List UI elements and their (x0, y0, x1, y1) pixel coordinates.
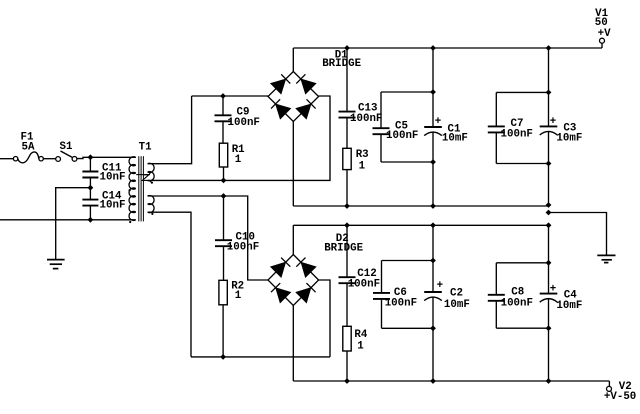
wire (43, 158, 55, 160)
wire (293, 224, 548, 226)
svg-text:+: + (437, 280, 443, 292)
capacitor C3 (540, 126, 558, 135)
capacitor C2 (424, 292, 442, 301)
svg-text:BRIDGE: BRIDGE (322, 58, 361, 70)
capacitor C8 (488, 263, 505, 328)
label V1 (595, 8, 611, 40)
capacitor C9 (215, 96, 232, 143)
label C10 (227, 231, 259, 253)
label C3 (550, 116, 583, 145)
capacitor C1 (424, 127, 442, 136)
junction (88, 154, 94, 160)
wire (148, 96, 192, 164)
capacitor C7 (488, 92, 505, 163)
svg-text:+V-50: +V-50 (604, 391, 636, 403)
wire (432, 132, 434, 206)
svg-text:100nF: 100nF (228, 117, 260, 129)
wire (292, 122, 294, 207)
label C13 (350, 103, 382, 125)
capacitor C6 (373, 261, 390, 329)
label C14 (100, 190, 126, 211)
wire (496, 163, 548, 165)
label C12 (348, 268, 380, 291)
label C5 (386, 120, 418, 142)
junction (546, 222, 552, 228)
label C1 (435, 116, 468, 145)
svg-text:10mF: 10mF (556, 300, 582, 312)
svg-text:+: + (550, 283, 556, 295)
ground (597, 255, 615, 262)
junction (546, 378, 552, 384)
wire (292, 306, 294, 382)
svg-text:10mF: 10mF (442, 133, 468, 145)
svg-text:100nF: 100nF (385, 297, 417, 309)
junction (546, 202, 552, 208)
resistor R2 (219, 280, 227, 357)
junction (546, 45, 552, 51)
svg-text:100nF: 100nF (501, 128, 533, 140)
svg-text:+: + (550, 116, 556, 128)
label C11 (100, 162, 126, 183)
svg-text:+V: +V (598, 28, 611, 40)
ground (47, 260, 65, 269)
wire (293, 205, 548, 207)
bridge rectifier D2 (268, 255, 319, 306)
phase dot (151, 182, 153, 184)
wire (381, 91, 433, 93)
svg-text:C8: C8 (511, 287, 524, 299)
wire (191, 356, 330, 358)
label R2 (231, 280, 244, 302)
wire (319, 280, 330, 357)
svg-text:5A: 5A (22, 141, 35, 153)
svg-text:1: 1 (235, 290, 242, 302)
wire (381, 161, 433, 163)
junction (430, 222, 436, 228)
junction (430, 325, 436, 331)
junction (220, 93, 226, 99)
label T1 (139, 141, 152, 153)
fuse F1 (13, 152, 43, 163)
wire (292, 225, 294, 254)
wire (292, 48, 294, 72)
svg-text:10mF: 10mF (444, 299, 470, 311)
capacitor C12 (339, 225, 356, 326)
wire (148, 212, 191, 357)
junction (344, 203, 350, 209)
capacitor C13 (339, 48, 356, 148)
switch S1 (56, 151, 77, 161)
svg-text:C2: C2 (450, 288, 463, 300)
svg-text:1: 1 (359, 161, 366, 173)
junction (430, 45, 436, 51)
phase dot (129, 189, 131, 191)
wire (293, 380, 609, 382)
wire (549, 213, 607, 256)
transformer T1 primary (129, 157, 136, 221)
wire (496, 91, 548, 93)
label C9 (228, 107, 260, 129)
svg-text:10nF: 10nF (100, 172, 126, 184)
junction (430, 378, 436, 384)
junction (344, 378, 350, 384)
label C7 (501, 118, 533, 141)
label C8 (501, 287, 533, 310)
wire (548, 225, 550, 293)
svg-text:10nF: 10nF (100, 200, 126, 212)
wire (293, 47, 602, 49)
terminal V2 (607, 381, 612, 391)
junction (430, 203, 436, 209)
svg-text:T1: T1 (139, 141, 152, 153)
resistor R3 (343, 148, 351, 206)
bridge rectifier D1 (268, 72, 319, 122)
junction (546, 210, 552, 216)
junction (430, 159, 436, 165)
capacitor C14 (82, 188, 98, 220)
svg-text:100nF: 100nF (386, 130, 418, 142)
terminal V1 (600, 38, 605, 48)
wire (77, 157, 136, 158)
wire (548, 299, 550, 382)
svg-text:100nF: 100nF (350, 113, 382, 125)
label F1 (21, 131, 35, 153)
capacitor C10 (215, 196, 232, 280)
capacitor C5 (373, 92, 390, 162)
svg-text:100nF: 100nF (227, 242, 259, 254)
label S1 (60, 141, 73, 153)
wire (0, 158, 13, 160)
wire (192, 95, 268, 97)
junction (430, 258, 436, 264)
capacitor C4 (540, 294, 558, 303)
wire (496, 262, 548, 264)
wire (148, 96, 330, 180)
label V2 (604, 381, 636, 403)
wire (496, 327, 548, 329)
phase dot (151, 213, 153, 215)
label D1 (322, 49, 361, 70)
svg-text:+: + (435, 116, 441, 128)
svg-text:100nF: 100nF (348, 278, 380, 290)
junction (221, 193, 227, 199)
label R3 (356, 149, 369, 172)
junction (344, 45, 350, 51)
svg-text:R3: R3 (356, 149, 369, 161)
resistor R4 (343, 326, 351, 381)
transformer T1 secondary 2 (148, 196, 154, 213)
label R1 (232, 144, 245, 166)
svg-text:R4: R4 (354, 329, 367, 341)
svg-text:10mF: 10mF (556, 133, 582, 145)
wire (382, 260, 434, 262)
transformer winding mark (136, 172, 152, 184)
junction (344, 222, 350, 228)
svg-text:BRIDGE: BRIDGE (324, 243, 363, 255)
transformer T1 secondary 1 (148, 163, 155, 181)
svg-text:1: 1 (235, 154, 242, 166)
phase dot (129, 221, 131, 223)
junction (546, 161, 552, 167)
transformer T1 core (139, 156, 144, 221)
wire (56, 188, 91, 260)
junction (88, 217, 94, 223)
svg-text:1: 1 (357, 341, 364, 353)
label D2 (324, 233, 363, 255)
junction (221, 178, 227, 184)
wire (0, 219, 136, 221)
resistor R1 (219, 143, 227, 180)
wire (548, 131, 550, 206)
wire (382, 327, 434, 329)
label C6 (385, 287, 417, 310)
junction (546, 90, 552, 96)
wire (148, 196, 268, 280)
wire (432, 48, 434, 127)
wire (548, 48, 550, 126)
label R4 (354, 329, 367, 353)
svg-text:S1: S1 (60, 141, 73, 153)
capacitor C11 (82, 157, 98, 187)
junction (88, 185, 94, 191)
wire (432, 225, 434, 292)
junction (546, 325, 552, 331)
junction (220, 354, 226, 360)
wire (432, 297, 434, 381)
junction (430, 89, 436, 95)
label C4 (550, 283, 583, 311)
label C2 (437, 280, 470, 311)
svg-text:100nF: 100nF (501, 298, 533, 310)
junction (546, 260, 552, 266)
